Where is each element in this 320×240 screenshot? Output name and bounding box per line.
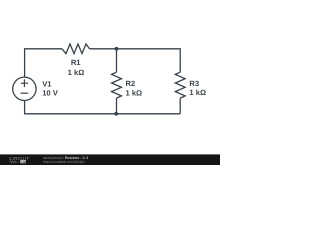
svg-text:1 kΩ: 1 kΩ: [126, 88, 143, 97]
svg-text:http://circuitlab.com/c61jk4: http://circuitlab.com/c61jk4: [43, 160, 84, 164]
svg-text:CIRCUIT: CIRCUIT: [9, 156, 29, 161]
svg-text:R2: R2: [126, 79, 136, 88]
svg-text:R1: R1: [71, 58, 81, 67]
svg-text:10 V: 10 V: [42, 89, 59, 98]
svg-text:V1: V1: [42, 79, 52, 88]
svg-text:LAB: LAB: [21, 161, 27, 164]
svg-text:1 kΩ: 1 kΩ: [68, 68, 85, 77]
svg-text:1 kΩ: 1 kΩ: [189, 88, 206, 97]
svg-text:R3: R3: [189, 79, 199, 88]
